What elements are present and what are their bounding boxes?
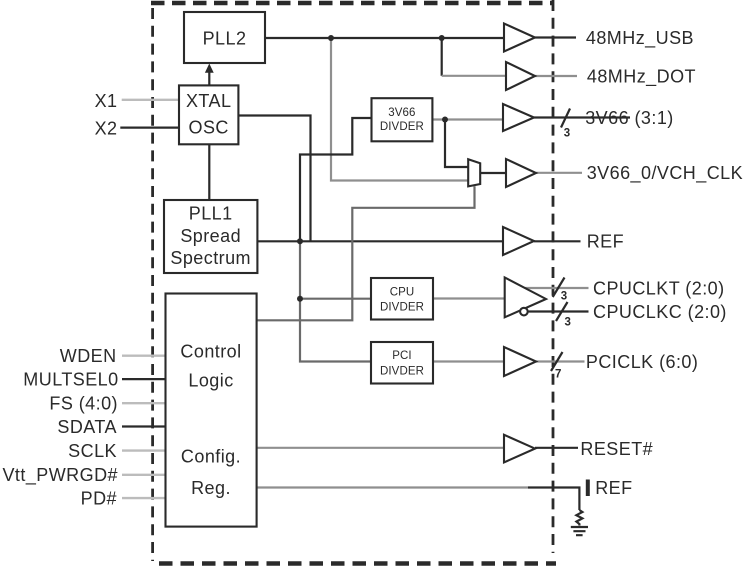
wire SDATA input [122, 425, 166, 427]
IREF current bar [586, 480, 590, 497]
junction PLL2 output node 2 [439, 35, 445, 41]
svg-text:7: 7 [555, 369, 561, 381]
svg-text:3V66: 3V66 [388, 107, 415, 119]
svg-text:48MHz_DOT: 48MHz_DOT [587, 66, 696, 87]
junction PLL1 output node [297, 238, 303, 244]
wire RESET# output [535, 447, 578, 449]
svg-text:DIVDER: DIVDER [380, 365, 424, 377]
svg-text:CPUCLKT (2:0): CPUCLKT (2:0) [593, 278, 725, 298]
wire Config Reg to RESET buffer [257, 447, 504, 449]
wire 48MHz_DOT output [535, 75, 577, 77]
svg-text:X1: X1 [95, 91, 118, 111]
inverter bubble on CPUCLKC [520, 308, 528, 316]
svg-text:PLL1: PLL1 [189, 204, 233, 224]
svg-text:Vtt_PWRGD#: Vtt_PWRGD# [2, 465, 118, 486]
wire Vtt_PWRGD# input [122, 474, 166, 476]
svg-text:WDEN: WDEN [60, 346, 117, 366]
wire X1 input [122, 99, 179, 101]
resistor on IREF to ground [576, 510, 582, 526]
svg-text:PCI: PCI [392, 350, 411, 362]
svg-text:CPU: CPU [390, 286, 415, 298]
svg-text:3V66 (3:1): 3V66 (3:1) [585, 108, 674, 128]
svg-text:Spectrum: Spectrum [170, 248, 251, 268]
wire PLL2 branch to 48MHz_DOT buffer [441, 38, 443, 76]
junction CPU divider branch node [297, 296, 303, 302]
wire MULTSEL0 input [122, 378, 166, 380]
svg-text:3: 3 [564, 127, 570, 139]
wire CPUCLKC output [528, 310, 589, 312]
buffer 3V66_0/VCH_CLK [506, 159, 536, 187]
svg-text:REF: REF [595, 478, 632, 498]
wire FS input [122, 402, 166, 404]
bus width slash PCICLK /7 [551, 352, 563, 371]
block CPU DIVDER [371, 278, 433, 320]
wire WDEN input [122, 355, 166, 357]
chip boundary top dashed line [151, 1, 553, 6]
wire node to 3V66 divider input [300, 118, 372, 241]
wire PLL1 output to REF buffer [257, 240, 503, 242]
buffer REF [503, 227, 534, 255]
svg-text:PCICLK (6:0): PCICLK (6:0) [586, 352, 698, 372]
svg-text:REF: REF [587, 231, 624, 251]
svg-text:DIVDER: DIVDER [380, 301, 424, 313]
wire CPU divider output [433, 297, 505, 299]
wire PLL2 output to 48MHz_USB buffer [265, 37, 504, 39]
svg-text:CPUCLKC (2:0): CPUCLKC (2:0) [593, 302, 727, 322]
wire XTAL OSC to PLL1 [208, 144, 210, 200]
buffer PCICLK [504, 347, 536, 376]
svg-text:PD#: PD# [81, 489, 117, 509]
svg-text:Reg.: Reg. [191, 478, 231, 498]
svg-text:Control: Control [180, 342, 241, 362]
bus width slash 3V66 /3 [561, 109, 570, 128]
svg-text:DIVDER: DIVDER [380, 121, 424, 133]
wire 3V66_0/VCH_CLK output [536, 172, 582, 174]
wire 48MHz_USB output [535, 36, 576, 38]
wire XTAL OSC to PLL2 with arrowhead [208, 70, 210, 85]
svg-text:FS (4:0): FS (4:0) [49, 394, 118, 414]
wire PCI divider output [433, 360, 504, 362]
buffer CPUCLK differential [505, 278, 546, 318]
svg-text:X2: X2 [95, 119, 118, 139]
wire PLL2 branch to mux input B [331, 38, 468, 181]
buffer 48MHz_DOT [506, 62, 535, 90]
wire mux output to buffer [480, 172, 506, 174]
svg-text:48MHz_USB: 48MHz_USB [586, 28, 694, 49]
bus width slash CPUCLKT /3 [553, 278, 565, 298]
buffer RESET# [504, 435, 535, 463]
chip boundary left dashed line [151, 8, 154, 561]
block PCI DIVDER [371, 342, 433, 384]
wire mux select from Control Logic [257, 186, 475, 320]
svg-text:SCLK: SCLK [68, 441, 117, 461]
mux 2:1 selector [468, 159, 480, 186]
svg-text:OSC: OSC [189, 117, 229, 137]
chip boundary right dashed line [552, 0, 555, 553]
wire trunk down to PCI divider input [300, 241, 371, 361]
svg-text:RESET#: RESET# [580, 439, 653, 459]
buffer 3V66 [503, 104, 534, 131]
block Control Logic / Config Reg [166, 294, 257, 527]
junction PLL2 output node 1 [328, 35, 334, 41]
buffer 48MHz_USB [504, 24, 535, 52]
wire PD# input [122, 497, 166, 499]
svg-text:Spread: Spread [180, 226, 241, 246]
wire 3V66 output [534, 116, 630, 118]
wire Config Reg to IREF pin [257, 486, 528, 488]
wire CPU divider input [300, 298, 371, 300]
block PLL1 Spread Spectrum [164, 200, 257, 273]
block XTAL OSC [179, 85, 238, 144]
svg-text:3V66_0/VCH_CLK: 3V66_0/VCH_CLK [587, 163, 743, 184]
svg-text:3: 3 [565, 316, 571, 328]
svg-text:PLL2: PLL2 [203, 28, 247, 48]
bus width slash CPUCLKC /3 [556, 302, 568, 321]
chip boundary bottom dashed line [159, 561, 556, 566]
svg-text:3: 3 [561, 291, 567, 303]
block PLL2 [184, 12, 265, 63]
svg-text:MULTSEL0: MULTSEL0 [23, 370, 118, 390]
ground symbol [571, 527, 588, 535]
wire 3V66 branch to mux input A [445, 120, 468, 168]
svg-text:Config.: Config. [181, 446, 241, 466]
wire XTAL OSC output down [238, 116, 310, 242]
wire SCLK input [122, 449, 166, 451]
svg-text:SDATA: SDATA [57, 417, 117, 437]
block 3V66 DIVDER [372, 98, 433, 141]
wire REF output [534, 240, 581, 242]
wire 3V66 divider output to 3V66 buffer [432, 118, 503, 120]
wire X2 input [120, 126, 179, 128]
svg-text:XTAL: XTAL [186, 91, 231, 111]
junction 3V66 divider output node [442, 117, 448, 123]
wire CPUCLKT output [525, 287, 589, 289]
wire PCICLK output [536, 360, 585, 362]
svg-text:Logic: Logic [188, 371, 233, 391]
